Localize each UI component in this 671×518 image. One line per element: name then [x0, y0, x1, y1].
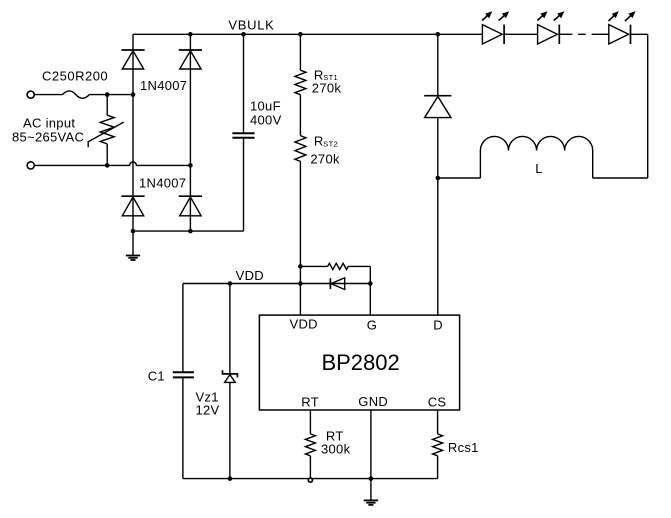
- wire RT pin to resistor: [309, 410, 311, 434]
- wire gate resistor right lead: [348, 265, 370, 267]
- wire LED1 to LED2: [504, 33, 537, 35]
- diode D3 1N4007 (top-right): [179, 49, 202, 51]
- diode D1 1N4007 (top-left): [121, 49, 144, 51]
- node bridge bottom left: [131, 229, 136, 234]
- node RST top: [298, 32, 303, 37]
- wire bulk cap bottom lead: [243, 138, 245, 231]
- svg-text:1N4007: 1N4007: [140, 78, 187, 93]
- LED LED2: [538, 25, 558, 44]
- wire right side drop: [647, 34, 649, 178]
- fuse F1 C250R200: [63, 91, 90, 98]
- wire dashed continuation: [565, 33, 600, 35]
- svg-text:C1: C1: [148, 368, 165, 383]
- varistor RV1 zigzag: [100, 115, 114, 144]
- wire bottom rail: [183, 478, 438, 480]
- node RT open junction: [308, 478, 312, 482]
- wire gate network right drop: [369, 266, 371, 283]
- capacitor C1 plates: [173, 371, 194, 373]
- wire GND pin to rail: [370, 410, 372, 479]
- LED LED3: [609, 25, 629, 44]
- svg-text:85~265VAC: 85~265VAC: [12, 129, 84, 144]
- wire C1 top lead: [182, 284, 184, 373]
- wire inductor right return: [593, 177, 648, 179]
- wire left bridge branch: [132, 34, 134, 231]
- wire LED2 to dashes: [559, 33, 564, 35]
- resistor RST2 270k: [295, 136, 306, 162]
- svg-text:ST2: ST2: [323, 139, 338, 148]
- svg-text:300k: 300k: [321, 441, 351, 456]
- wire varistor bottom lead: [106, 144, 108, 166]
- LED LED1: [482, 25, 502, 44]
- LED1 arrows: [482, 15, 488, 21]
- diode D6 (gate, points left): [329, 278, 331, 289]
- svg-text:G: G: [367, 317, 377, 332]
- svg-text:BP2802: BP2802: [321, 350, 399, 375]
- AC input terminal J2 (neutral): [27, 162, 34, 169]
- node right branch top: [188, 32, 193, 37]
- diode D2 1N4007 (bottom-left): [121, 195, 144, 197]
- svg-text:L: L: [535, 161, 543, 176]
- wire Rcs1 to rail: [437, 456, 439, 479]
- node varistor top junction: [105, 92, 110, 97]
- wire RST2 to VDD node: [299, 161, 301, 315]
- wire inductor right leg: [592, 151, 594, 179]
- wire bridge bottom: [133, 230, 244, 232]
- svg-text:VBULK: VBULK: [228, 17, 274, 32]
- svg-text:270k: 270k: [310, 152, 340, 167]
- node bridge bottom right: [188, 229, 193, 234]
- wire RT resistor to rail: [309, 456, 311, 479]
- wire C1 bottom lead: [182, 377, 184, 478]
- diode D5 (freewheeling): [424, 95, 451, 97]
- zener diode Vz1 12V: [223, 370, 238, 377]
- resistor RT 300k: [305, 434, 315, 456]
- AC input terminal J1 (line): [27, 91, 34, 98]
- LED3 arrows: [609, 15, 616, 21]
- svg-text:Rcs1: Rcs1: [448, 440, 479, 455]
- svg-text:C250R200: C250R200: [42, 68, 108, 83]
- wire varistor top lead: [106, 95, 108, 116]
- wire gate resistor left lead: [300, 265, 327, 267]
- svg-text:400V: 400V: [250, 112, 282, 127]
- node zener top on VDD rail: [228, 281, 233, 286]
- svg-text:CS: CS: [428, 395, 447, 410]
- wire VBULK top rail: [133, 33, 482, 35]
- svg-text:1N4007: 1N4007: [139, 175, 186, 190]
- op-amp U1 BP2802 body: [259, 315, 459, 410]
- node VDD rail at RST branch: [298, 281, 303, 286]
- capacitor C2 10uF/400V plates: [232, 132, 254, 134]
- wire G pin stub: [369, 284, 371, 316]
- node gate network to G pin: [368, 281, 373, 286]
- wire zener top lead: [229, 284, 231, 375]
- wire freewheel diode to inductor node: [437, 118, 439, 178]
- LED2 arrows: [537, 15, 543, 21]
- wire right bridge branch: [189, 34, 191, 231]
- node AC1 on left bridge branch: [131, 92, 136, 97]
- svg-text:D: D: [433, 317, 443, 332]
- svg-text:GND: GND: [358, 394, 388, 409]
- svg-text:RT: RT: [301, 395, 319, 410]
- wire dashes to LED3: [599, 33, 609, 35]
- resistor R2 (gate): [328, 263, 349, 269]
- wire RST1 to RST2: [299, 95, 301, 136]
- wire fuse to bridge node: [89, 94, 133, 96]
- node inductor return junction: [436, 176, 441, 181]
- ground (bridge negative): [132, 231, 134, 255]
- wire zener bottom lead: [229, 382, 231, 478]
- svg-text:R: R: [314, 134, 324, 149]
- svg-text:VDD: VDD: [236, 268, 264, 283]
- wire top rail to freewheel diode: [437, 34, 439, 95]
- resistor RST1 270k: [295, 70, 306, 95]
- wire bulk cap top lead: [243, 34, 245, 133]
- node zener bottom on rail: [228, 476, 233, 481]
- wire inductor to diode node: [438, 177, 481, 179]
- node gate-resistor left junction: [298, 264, 303, 269]
- node AC2 on right bridge branch: [188, 163, 193, 168]
- node varistor bottom junction: [105, 163, 110, 168]
- inductor L: [480, 136, 592, 150]
- wire VDD rail: [183, 283, 301, 285]
- wire terminal J1 to fuse: [34, 94, 62, 96]
- wire inductor left leg: [479, 151, 481, 179]
- varistor RV1 diagonal stroke: [88, 122, 124, 147]
- node bulk cap top: [241, 32, 246, 37]
- svg-text:VDD: VDD: [290, 317, 318, 332]
- wire LED3 to right corner: [631, 33, 648, 35]
- wire CS pin to Rcs1: [437, 410, 439, 434]
- svg-text:270k: 270k: [312, 81, 342, 96]
- wire top rail to RST1: [299, 34, 301, 70]
- wire terminal J2 to bridge (hops over left branch): [34, 162, 190, 165]
- node freewheel diode top: [436, 32, 441, 37]
- ground (signal): [370, 479, 372, 501]
- svg-text:12V: 12V: [196, 402, 220, 417]
- wire D pin stub: [437, 178, 439, 315]
- diode D4 1N4007 (bottom-right): [179, 195, 202, 197]
- resistor Rcs1: [433, 434, 443, 456]
- diode D6 (gate) wire: [300, 283, 370, 285]
- node GND on rail: [369, 476, 374, 481]
